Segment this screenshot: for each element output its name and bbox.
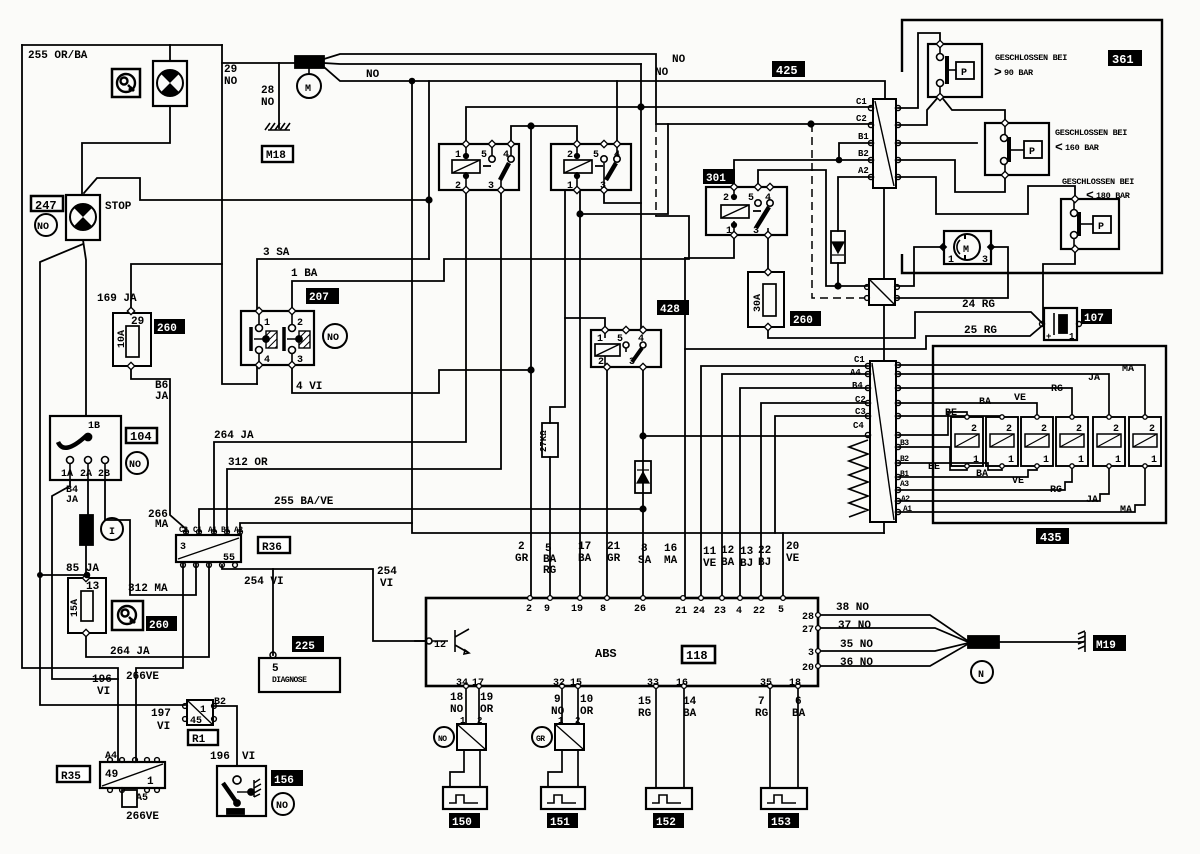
svg-text:BA: BA bbox=[721, 557, 735, 569]
svg-text:N: N bbox=[978, 670, 984, 681]
svg-text:OR: OR bbox=[480, 704, 494, 716]
wire B1 row stub bbox=[898, 142, 977, 144]
svg-text:1: 1 bbox=[1151, 455, 1157, 466]
svg-text:49: 49 bbox=[105, 769, 118, 781]
wire 29NO vertical x222 bbox=[222, 45, 257, 384]
svg-text:13: 13 bbox=[740, 546, 754, 558]
wire 1 BA run bbox=[292, 216, 689, 311]
svg-text:12: 12 bbox=[721, 545, 734, 557]
svg-text:C2: C2 bbox=[856, 114, 867, 124]
ABS computer 118 bbox=[426, 598, 818, 686]
RELAY BANK AND SENSOR WIRES bbox=[415, 365, 1145, 788]
svg-text:A1: A1 bbox=[903, 505, 912, 514]
svg-text:1: 1 bbox=[1043, 455, 1049, 466]
wire ABS pin27 37 NO bbox=[818, 628, 968, 642]
label box 425 bbox=[772, 61, 805, 77]
connector 1 (C1-A2) bbox=[873, 99, 896, 188]
wire sensor151 right leg bbox=[577, 750, 579, 787]
svg-text:38 NO: 38 NO bbox=[836, 602, 869, 614]
wire ABS pin17 to sensor150 bbox=[478, 686, 480, 724]
wire 3 SA run bbox=[257, 259, 429, 311]
svg-text:P: P bbox=[1098, 222, 1104, 233]
wire 264 JA run bbox=[214, 190, 466, 535]
wire 104 2B to 312 MA bbox=[105, 480, 196, 595]
wire 27k to ABS pin9 bbox=[549, 457, 551, 598]
svg-text:3: 3 bbox=[753, 226, 759, 237]
svg-text:NO: NO bbox=[261, 97, 275, 109]
wire relaybank2 bottom BA bbox=[898, 463, 1002, 470]
wire stop bottom to left rail x40 bbox=[40, 244, 185, 705]
label ABS top pin numbers bbox=[526, 604, 784, 617]
svg-text:107: 107 bbox=[1084, 313, 1104, 325]
svg-text:6: 6 bbox=[795, 696, 802, 708]
svg-text:JA: JA bbox=[66, 495, 78, 506]
svg-text:1: 1 bbox=[567, 181, 573, 192]
svg-text:NO: NO bbox=[129, 460, 141, 471]
label box R35 bbox=[57, 766, 90, 782]
wire C1 left row to ABS pin24 bbox=[701, 366, 868, 598]
svg-text:>: > bbox=[994, 65, 1002, 80]
svg-text:NO: NO bbox=[438, 735, 447, 744]
svg-text:2: 2 bbox=[971, 424, 977, 435]
label box 118 bbox=[682, 646, 715, 663]
svg-text:B2: B2 bbox=[214, 697, 226, 708]
svg-text:2A: 2A bbox=[80, 469, 92, 480]
svg-text:28: 28 bbox=[261, 85, 275, 97]
svg-text:27: 27 bbox=[802, 625, 814, 636]
wire connector1 bottom to square bbox=[883, 188, 885, 279]
wire relayB pin4 stem bbox=[616, 81, 618, 144]
svg-text:VI: VI bbox=[380, 578, 393, 590]
svg-text:2B: 2B bbox=[98, 469, 110, 480]
label box M19 bbox=[1093, 635, 1126, 651]
svg-text:2: 2 bbox=[1113, 424, 1119, 435]
svg-text:301: 301 bbox=[706, 173, 726, 185]
box 435 solenoid block bbox=[933, 346, 1166, 523]
NO circle 150 bbox=[434, 727, 454, 747]
label box 156 bbox=[271, 770, 303, 786]
svg-text:2: 2 bbox=[518, 541, 525, 553]
junction C4 branch bbox=[639, 432, 646, 439]
svg-text:VE: VE bbox=[786, 553, 800, 565]
svg-text:34: 34 bbox=[456, 678, 468, 689]
wire fuse13 bottom 264 JA bbox=[86, 562, 209, 657]
svg-text:VE: VE bbox=[1012, 476, 1024, 487]
svg-text:1: 1 bbox=[200, 705, 206, 716]
svg-text:3 SA: 3 SA bbox=[263, 247, 290, 259]
svg-text:15: 15 bbox=[638, 696, 652, 708]
svg-text:R36: R36 bbox=[262, 542, 282, 554]
label box 435 bbox=[1036, 528, 1069, 544]
svg-text:18: 18 bbox=[450, 692, 464, 704]
svg-text:VE: VE bbox=[703, 558, 717, 570]
wire 255 BA/VE run bbox=[199, 509, 643, 535]
wire ABS pin12 transistor lead bbox=[415, 640, 426, 642]
junction B1/B2 bbox=[836, 157, 843, 164]
wire relaybank4 bottom RG bbox=[898, 466, 1072, 490]
svg-text:C1: C1 bbox=[854, 355, 865, 365]
wire 25 RG bbox=[685, 325, 1043, 349]
svg-text:BA: BA bbox=[578, 553, 592, 565]
junction 4VI bbox=[527, 366, 534, 373]
wire R35 pinA4 drop bbox=[117, 705, 119, 761]
svg-text:VI: VI bbox=[157, 721, 170, 733]
svg-text:1: 1 bbox=[1078, 455, 1084, 466]
wire 20 VE to ABS pin5 bbox=[782, 533, 784, 598]
svg-text:B2: B2 bbox=[858, 149, 869, 159]
label solenoid colours top bbox=[945, 364, 1134, 419]
label box 260 30A bbox=[790, 311, 821, 326]
splice N black bbox=[968, 636, 999, 648]
svg-text:BJ: BJ bbox=[758, 557, 771, 569]
svg-text:2: 2 bbox=[1076, 424, 1082, 435]
svg-text:NO: NO bbox=[672, 54, 686, 66]
svg-text:17: 17 bbox=[578, 541, 591, 553]
svg-text:GESCHLOSSEN BEI: GESCHLOSSEN BEI bbox=[1062, 177, 1134, 187]
NO circle 207 bbox=[323, 324, 347, 348]
wire square bottom to connector2 bbox=[883, 305, 885, 361]
svg-text:33: 33 bbox=[647, 678, 659, 689]
svg-text:10: 10 bbox=[580, 694, 593, 706]
svg-text:1: 1 bbox=[726, 226, 732, 237]
svg-text:1: 1 bbox=[973, 455, 979, 466]
wire 428 pin3 to ABS pin26 bbox=[642, 367, 644, 598]
svg-text:A5: A5 bbox=[136, 793, 148, 804]
junction 255BAVE bbox=[639, 505, 646, 512]
svg-text:VE: VE bbox=[1014, 393, 1026, 404]
svg-text:255 BA/VE: 255 BA/VE bbox=[274, 496, 334, 508]
pressure switch 90 bar bbox=[928, 44, 982, 97]
label box M18 bbox=[262, 146, 293, 162]
svg-text:1: 1 bbox=[1115, 455, 1121, 466]
svg-text:1 BA: 1 BA bbox=[291, 268, 318, 280]
svg-text:20: 20 bbox=[802, 663, 814, 674]
wire 301 pin3 to fuse30A bbox=[767, 235, 769, 272]
ABS pin ticks bbox=[464, 415, 1148, 689]
svg-text:B1: B1 bbox=[900, 470, 909, 479]
svg-text:247: 247 bbox=[35, 199, 57, 213]
svg-text:2: 2 bbox=[526, 604, 532, 615]
svg-text:180 BAR: 180 BAR bbox=[1096, 191, 1131, 201]
svg-text:+: + bbox=[1046, 332, 1051, 342]
svg-text:16: 16 bbox=[676, 678, 688, 689]
svg-text:3: 3 bbox=[808, 648, 814, 659]
svg-text:260: 260 bbox=[157, 323, 177, 335]
label box 152 bbox=[653, 813, 684, 828]
svg-text:15A: 15A bbox=[70, 599, 81, 617]
svg-text:207: 207 bbox=[309, 292, 329, 304]
label relay bank pin numbers bbox=[971, 424, 1157, 466]
svg-text:NO: NO bbox=[450, 704, 464, 716]
wire ABS pin20 36 NO bbox=[818, 644, 968, 666]
svg-text:55: 55 bbox=[223, 553, 235, 564]
svg-text:19: 19 bbox=[571, 604, 583, 615]
wire sensor151 connector to pickup bbox=[548, 750, 562, 787]
svg-text:22: 22 bbox=[758, 545, 771, 557]
svg-text:10A: 10A bbox=[117, 330, 128, 348]
wire 169 JA fuse feed bbox=[131, 264, 222, 313]
wire 301 pin5 to diode junction bbox=[758, 170, 867, 286]
svg-text:A3: A3 bbox=[900, 480, 909, 489]
svg-text:264 JA: 264 JA bbox=[214, 430, 254, 442]
svg-text:NO: NO bbox=[276, 801, 288, 812]
junction stop/NO bbox=[425, 196, 432, 203]
wire A4 left row to ABS pin23 bbox=[722, 374, 868, 598]
svg-text:151: 151 bbox=[550, 817, 570, 829]
svg-text:1: 1 bbox=[558, 716, 564, 726]
wire B1 row link bbox=[839, 143, 871, 160]
svg-text:RG: RG bbox=[543, 565, 557, 577]
svg-text:A2: A2 bbox=[234, 526, 243, 535]
svg-text:255 OR/BA: 255 OR/BA bbox=[28, 50, 88, 62]
ignition key symbol box top bbox=[112, 69, 140, 97]
wire 301 pin1 to coil rail bbox=[685, 235, 734, 258]
sensor connector 151 bbox=[555, 724, 584, 750]
wire motor M left pin to square bbox=[897, 247, 944, 286]
label box 361 bbox=[1108, 50, 1142, 66]
svg-text:RG: RG bbox=[755, 708, 769, 720]
svg-text:12: 12 bbox=[434, 640, 446, 651]
wire 428 pin2 to ABS pin8 bbox=[606, 367, 608, 598]
svg-text:1: 1 bbox=[1069, 332, 1075, 342]
junction 85JA bbox=[84, 572, 91, 579]
svg-text:VI: VI bbox=[242, 751, 255, 763]
connector 45 R1 bbox=[187, 700, 213, 725]
svg-text:312 OR: 312 OR bbox=[228, 457, 268, 469]
svg-text:2: 2 bbox=[477, 716, 482, 726]
svg-text:4 VI: 4 VI bbox=[296, 381, 322, 393]
svg-text:C2: C2 bbox=[855, 395, 866, 405]
junction relayA4/x531 bbox=[527, 122, 534, 129]
svg-text:21: 21 bbox=[607, 541, 621, 553]
connector 207 bbox=[241, 311, 314, 365]
svg-text:36 NO: 36 NO bbox=[840, 657, 873, 669]
wheel sensor 152 bbox=[646, 788, 692, 809]
wire C4 branch to connector2 bbox=[643, 435, 870, 437]
lamp warning top bbox=[153, 61, 187, 106]
wire 428 pin1 stem bbox=[565, 318, 605, 330]
wire C2 left row to ABS pin22 bbox=[761, 403, 868, 598]
wire ABS pin35 to sensor153 bbox=[769, 686, 771, 788]
svg-text:24: 24 bbox=[693, 606, 705, 617]
svg-text:GESCHLOSSEN BEI: GESCHLOSSEN BEI bbox=[1055, 128, 1127, 138]
wire NO net stop junction vertical bbox=[428, 81, 430, 259]
wire 254 VI branch to diagnose bbox=[272, 569, 274, 655]
svg-text:2: 2 bbox=[723, 193, 729, 204]
svg-text:15: 15 bbox=[570, 678, 582, 689]
wire relaybank2 top BA bbox=[898, 416, 1002, 417]
svg-text:150: 150 bbox=[452, 817, 472, 829]
svg-text:4: 4 bbox=[638, 334, 644, 345]
wire rail x692 to ABS pin21 bbox=[684, 258, 686, 598]
label box 428 bbox=[657, 300, 689, 315]
svg-text:312 MA: 312 MA bbox=[128, 583, 168, 595]
svg-text:2: 2 bbox=[1149, 424, 1155, 435]
wheel sensor 150 bbox=[443, 787, 487, 809]
wire rail x531 to ABS pin2 bbox=[530, 126, 532, 598]
svg-text:35: 35 bbox=[760, 678, 772, 689]
wire 180bar bottom to battery bbox=[1043, 249, 1075, 324]
pressure switch 180 bar bbox=[1061, 199, 1119, 249]
svg-text:260: 260 bbox=[149, 620, 169, 632]
wire relayB pin3 jog bbox=[604, 190, 641, 203]
svg-text:196: 196 bbox=[92, 674, 112, 686]
svg-text:A2: A2 bbox=[858, 166, 869, 176]
wire relayA pin4 to relayB pin2 bbox=[511, 126, 577, 144]
ground M18 bbox=[265, 123, 290, 130]
wire diode relay rail x641 bbox=[640, 64, 642, 330]
svg-text:5: 5 bbox=[481, 150, 487, 161]
svg-text:SA: SA bbox=[638, 555, 652, 567]
wire stop bottom to 104 pin 1B bbox=[83, 240, 86, 416]
svg-text:JA: JA bbox=[1088, 373, 1100, 384]
svg-text:20: 20 bbox=[786, 541, 799, 553]
svg-text:A4: A4 bbox=[850, 368, 861, 378]
svg-text:C2: C2 bbox=[179, 526, 188, 535]
wire motor fan lower NO to connector top bbox=[324, 67, 885, 99]
svg-text:C3: C3 bbox=[855, 407, 866, 417]
svg-text:153: 153 bbox=[771, 817, 791, 829]
svg-text:254 VI: 254 VI bbox=[244, 576, 284, 588]
svg-text:1: 1 bbox=[264, 318, 270, 329]
solenoid coils zigzag bbox=[849, 440, 868, 517]
svg-text:4: 4 bbox=[614, 150, 620, 161]
wire C3 left row drop bbox=[775, 416, 868, 533]
svg-text:3: 3 bbox=[488, 181, 494, 192]
wire ABS pin32 to sensor151 bbox=[561, 686, 563, 724]
svg-text:17: 17 bbox=[472, 678, 484, 689]
svg-text:5: 5 bbox=[778, 605, 784, 616]
svg-text:32: 32 bbox=[553, 678, 565, 689]
svg-text:28: 28 bbox=[802, 612, 814, 623]
junction C1 row bbox=[637, 103, 644, 110]
relay A 425 bbox=[439, 144, 519, 190]
svg-text:5: 5 bbox=[272, 663, 279, 675]
ballast resistor bar bbox=[80, 515, 93, 545]
svg-text:266VE: 266VE bbox=[126, 671, 159, 683]
resistor 27k bbox=[542, 423, 558, 457]
wire relaybank1 top BE bbox=[898, 412, 967, 435]
wire C2 row to 90bar switch bottom bbox=[898, 95, 940, 125]
svg-text:3: 3 bbox=[600, 181, 606, 192]
svg-text:30A: 30A bbox=[753, 294, 764, 312]
label box 150 bbox=[449, 813, 480, 828]
wire relayA pin1 to connector C1 row bbox=[466, 107, 871, 144]
junction 196VI rail bbox=[37, 572, 43, 578]
svg-text:NO: NO bbox=[224, 76, 238, 88]
svg-text:29: 29 bbox=[224, 64, 237, 76]
label box 260 fuse29 bbox=[154, 319, 185, 334]
label box 151 bbox=[547, 813, 578, 828]
svg-text:MA: MA bbox=[1122, 364, 1134, 375]
solenoid relay 5 bbox=[1093, 417, 1125, 466]
relay D 428 bbox=[591, 330, 661, 367]
connector 104 bbox=[50, 416, 121, 480]
svg-text:104: 104 bbox=[130, 430, 152, 444]
solenoid relay 1 bbox=[951, 417, 983, 466]
label connector2 rows right bbox=[900, 439, 912, 514]
square connector x bbox=[869, 279, 895, 305]
svg-text:4: 4 bbox=[264, 355, 270, 366]
svg-text:361: 361 bbox=[1112, 53, 1134, 67]
wire relaybank6 top MA bbox=[898, 365, 1145, 417]
wire relayB coil pin to 27k resistor bbox=[550, 190, 565, 423]
wire relayB pin1 to ABS pin19 bbox=[579, 214, 581, 598]
wire motor fan middle NO bbox=[324, 63, 641, 64]
svg-text:1: 1 bbox=[147, 776, 154, 788]
wire connector2 bottom stub bbox=[883, 522, 885, 533]
wire 104 1A stub bbox=[52, 480, 118, 679]
svg-text:14: 14 bbox=[683, 696, 697, 708]
solenoid relay 4 bbox=[1056, 417, 1088, 466]
label box 260 key2 bbox=[146, 616, 177, 631]
svg-text:P: P bbox=[961, 68, 967, 79]
svg-text:MA: MA bbox=[664, 555, 678, 567]
wire fuse30A to 24RG bbox=[768, 312, 1043, 338]
svg-text:425: 425 bbox=[776, 64, 798, 78]
solenoid relay 6 bbox=[1129, 417, 1161, 466]
junction C2 dashed bbox=[807, 120, 814, 127]
svg-text:196: 196 bbox=[210, 751, 230, 763]
svg-text:JA: JA bbox=[1086, 495, 1098, 506]
wire ABS pin18 to sensor153 bbox=[797, 686, 799, 788]
label connector1 rows bbox=[856, 97, 869, 176]
svg-text:254: 254 bbox=[377, 566, 397, 578]
label box 247 bbox=[31, 196, 63, 211]
svg-text:BA: BA bbox=[976, 469, 988, 480]
wire diode1 bottom stub bbox=[837, 263, 839, 286]
svg-text:19: 19 bbox=[480, 692, 493, 704]
svg-text:21: 21 bbox=[675, 606, 687, 617]
svg-text:2: 2 bbox=[598, 357, 604, 368]
relay C 301 bbox=[706, 187, 787, 235]
wire sensor150 connector to pickup bbox=[450, 750, 464, 787]
svg-text:45: 45 bbox=[190, 716, 202, 727]
label sensor wire cols bbox=[450, 692, 806, 720]
label box 301 bbox=[703, 169, 735, 184]
svg-text:DIAGNOSE: DIAGNOSE bbox=[272, 676, 307, 685]
svg-text:27KΩ: 27KΩ bbox=[539, 430, 549, 452]
wire fuse29 to R36 (266 MA) bbox=[131, 366, 186, 535]
wire sensor150 right leg bbox=[479, 750, 481, 787]
ignition key symbol box 2 bbox=[112, 601, 143, 630]
svg-text:25 RG: 25 RG bbox=[964, 325, 997, 337]
svg-text:5: 5 bbox=[617, 334, 623, 345]
wire 254 VI run bbox=[222, 565, 426, 641]
svg-text:R1: R1 bbox=[192, 734, 206, 746]
label ABS right pin numbers bbox=[802, 612, 814, 674]
svg-text:435: 435 bbox=[1040, 531, 1062, 545]
NO circle 247 bbox=[35, 214, 57, 236]
svg-text:5: 5 bbox=[593, 150, 599, 161]
wire ABS pin16 to sensor152 bbox=[683, 686, 685, 788]
wheel sensor 151 bbox=[541, 787, 585, 809]
svg-text:156: 156 bbox=[274, 775, 294, 787]
wire ABS pin34 to sensor150 bbox=[465, 686, 467, 724]
svg-text:37 NO: 37 NO bbox=[838, 620, 871, 632]
ABS transistor symbol bbox=[426, 629, 469, 654]
wire feed to motor connector bbox=[222, 62, 296, 64]
N circle bbox=[971, 661, 993, 683]
svg-text:5: 5 bbox=[748, 193, 754, 204]
svg-text:9: 9 bbox=[554, 694, 561, 706]
wire diode1 top to A2 row bbox=[838, 177, 871, 231]
svg-text:<: < bbox=[1055, 140, 1063, 155]
svg-text:BA: BA bbox=[792, 708, 806, 720]
svg-text:BE: BE bbox=[928, 462, 940, 473]
svg-text:22: 22 bbox=[753, 606, 765, 617]
dashed link relay actuation x656 bbox=[655, 124, 657, 216]
